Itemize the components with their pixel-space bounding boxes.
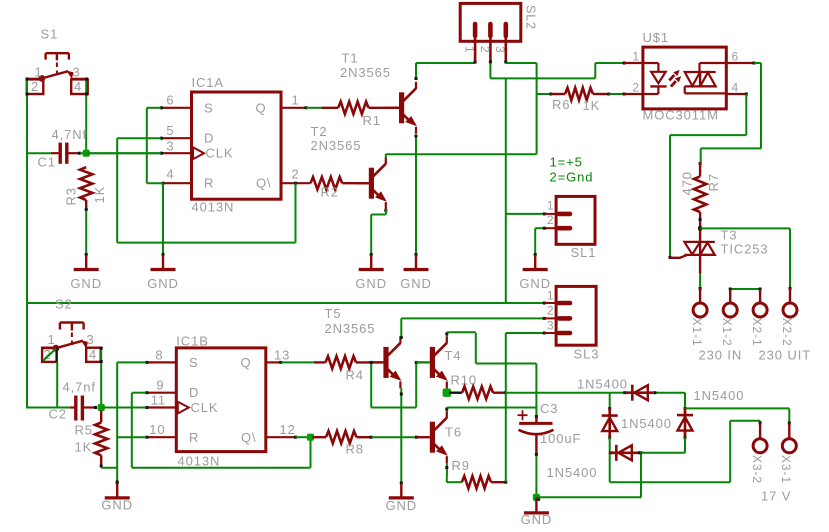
IC IC1B body [176, 348, 265, 452]
SL1 pin2 stub [544, 227, 556, 229]
svg-text:6: 6 [166, 93, 174, 108]
svg-text:C1: C1 [38, 155, 56, 170]
wire T1 emitter to GND [415, 135, 418, 259]
wire C3 bottom to GND dot [535, 455, 537, 497]
SL1 pin1 stub [544, 213, 556, 215]
wire pin12 to junction [296, 436, 311, 438]
wire IC1A pin5 stub [160, 137, 192, 140]
wire T6 emitter down [445, 463, 462, 482]
svg-text:Q: Q [255, 100, 266, 115]
svg-text:GND: GND [147, 276, 179, 291]
SL3 pin3 bar [559, 331, 570, 336]
svg-text:2N3565: 2N3565 [311, 138, 362, 153]
terminal X3-2 stub [759, 423, 761, 439]
ground GND (R3) [85, 253, 88, 256]
wire 17V wire to X3-1 [685, 408, 791, 424]
wire SL2 pin2 rail right [490, 77, 595, 79]
resistor R7 [699, 162, 702, 165]
ground GND (T5) [400, 481, 403, 484]
ground GND (SL1) [534, 253, 537, 256]
wire T5 collector to SL3 pin2 [400, 317, 546, 339]
svg-text:2: 2 [292, 167, 300, 182]
svg-text:1N5400: 1N5400 [577, 377, 628, 392]
triac T3 [670, 242, 715, 258]
wire S2 box2 diagonal entry [43, 349, 56, 361]
wire T5 base drop [370, 361, 373, 408]
wire S/R tie to GND vertical [116, 362, 119, 483]
wire S2 pin2 down to C2 [56, 362, 58, 409]
wire T4 base wire [416, 361, 430, 363]
IC1A CLK triangle [193, 147, 204, 159]
wire feedback D vertical [116, 138, 118, 242]
svg-text:11: 11 [151, 393, 166, 408]
resistor R3 [80, 167, 92, 200]
diode D2 (left, 1N5400) [608, 408, 611, 437]
svg-text:1: 1 [547, 289, 555, 303]
svg-text:S2: S2 [55, 297, 73, 312]
SL2 pin1 bar [473, 24, 478, 36]
svg-text:2: 2 [632, 81, 640, 95]
wire R8 to T6 base [372, 436, 419, 439]
svg-text:SL2: SL2 [524, 5, 538, 30]
svg-text:R6: R6 [552, 97, 570, 112]
wire IC1A pin4 stub [162, 182, 192, 185]
svg-text:T5: T5 [325, 306, 342, 321]
U$1 internal triac [685, 63, 727, 93]
svg-text:TIC253: TIC253 [721, 242, 769, 257]
SL3 pin3 stub [544, 332, 556, 334]
terminal X3-1 [782, 439, 796, 453]
svg-text:4013N: 4013N [178, 454, 221, 469]
connector SL2 body [460, 3, 521, 41]
wire X1-2/X2-1 bridge [729, 288, 762, 291]
SL2 pin3 lead [504, 33, 507, 62]
wire T1 collector up [415, 63, 418, 80]
svg-text:R4: R4 [346, 368, 364, 383]
wire net R to GND [162, 183, 164, 257]
svg-text:17 V: 17 V [761, 489, 791, 504]
svg-text:Q\: Q\ [241, 430, 257, 445]
svg-text:1: 1 [292, 93, 300, 108]
svg-text:3: 3 [547, 319, 555, 333]
terminal X2-2 [783, 303, 797, 317]
U$1 pin2 stub [624, 93, 643, 95]
svg-text:4: 4 [166, 167, 174, 182]
svg-text:SL1: SL1 [571, 245, 597, 260]
svg-text:R2: R2 [321, 185, 339, 200]
wire feedback D vertical B [131, 393, 133, 468]
svg-text:1K: 1K [92, 186, 107, 204]
transistor T4 [430, 347, 435, 378]
SL2 pin1 lead [474, 33, 477, 62]
wire GND branch right [536, 451, 642, 497]
svg-text:T4: T4 [445, 348, 462, 363]
SL3 pin2 stub [544, 317, 556, 319]
wire IC1A pin3 stub [160, 152, 192, 155]
wire net R wire [147, 182, 163, 184]
wire pin6 right and down [701, 63, 761, 163]
wire SL3 pin3 rail [506, 332, 546, 483]
svg-text:X2-2: X2-2 [780, 318, 794, 347]
wire SL2 pin3 rail down [505, 78, 507, 303]
svg-text:IC1A: IC1A [192, 75, 225, 90]
resistor R4 [314, 361, 326, 363]
wire rail up to U1 pin1 [595, 62, 625, 79]
wire pin13 to R4 [281, 361, 314, 363]
svg-text:GND: GND [521, 512, 553, 527]
svg-text:4,7Nf: 4,7Nf [52, 127, 88, 142]
svg-text:R8: R8 [346, 442, 364, 457]
svg-text:U$1: U$1 [643, 30, 670, 45]
wire feedback horizontal [117, 242, 295, 244]
wire IC1B pin12 stub [266, 436, 297, 439]
wire T6 base stub [417, 436, 430, 438]
SL1 pin1 bar [559, 212, 570, 217]
svg-text:1: 1 [632, 50, 640, 64]
SL2 pin2 bar [488, 24, 493, 36]
resistor R9 [462, 476, 491, 488]
wire R10 to bridge [506, 392, 610, 394]
terminal X3-1 stub [788, 423, 790, 439]
svg-text:C3: C3 [540, 401, 558, 416]
svg-text:X1-2: X1-2 [720, 318, 734, 347]
svg-text:4: 4 [74, 79, 82, 94]
terminal X1-1 stub [699, 288, 701, 303]
svg-text:2: 2 [547, 213, 555, 227]
wire S1 pin4 down to C1 junction [85, 78, 88, 154]
svg-text:5: 5 [166, 123, 174, 138]
resistor R2 [311, 177, 343, 189]
SL1 pin2 bar [559, 226, 570, 231]
svg-text:GND: GND [355, 276, 387, 291]
svg-text:10: 10 [149, 422, 165, 437]
svg-text:1K: 1K [75, 440, 93, 455]
wire T4 collector staircase [445, 332, 538, 418]
terminal X3-2 [753, 439, 767, 453]
svg-text:1N5400: 1N5400 [694, 388, 745, 403]
svg-text:S: S [204, 100, 214, 115]
resistor R5 [100, 411, 102, 423]
wire IC1B pin10 stub [145, 436, 176, 439]
svg-text:1: 1 [547, 199, 555, 213]
U$1 pin6 stub [726, 62, 754, 64]
wire feedback horizontal B [132, 467, 311, 469]
svg-text:X2-1: X2-1 [750, 318, 764, 347]
SL3 pin2 bar [559, 316, 570, 321]
resistor R6 [551, 93, 565, 95]
terminal X1-2 [723, 303, 737, 317]
svg-text:2: 2 [478, 46, 492, 54]
wire bridge top wire [610, 391, 685, 394]
svg-text:GND: GND [70, 276, 102, 291]
wire T3 MT1 down [699, 255, 702, 290]
capacitor C3 [519, 417, 554, 456]
svg-text:470: 470 [680, 171, 695, 195]
wire SL2 pin2 down [489, 63, 491, 78]
svg-text:D: D [189, 385, 199, 400]
IC1B CLK triangle [178, 402, 189, 414]
svg-text:1: 1 [463, 46, 477, 54]
wire SL1 pin2 to GND [535, 227, 546, 258]
svg-text:9: 9 [156, 378, 164, 393]
wire net CLK wire B [101, 407, 146, 409]
svg-text:4: 4 [89, 347, 97, 362]
capacitor C3 plus sign [518, 414, 528, 416]
optocoupler U$1 body [643, 47, 726, 109]
wire feedback Qbar vertical B [310, 437, 312, 468]
wire C1 right to CLK net [80, 152, 161, 154]
svg-text:1N5400: 1N5400 [621, 416, 672, 431]
wire IC1B pin13 stub [266, 361, 283, 364]
terminal X1-1 [693, 303, 707, 317]
svg-text:4013N: 4013N [192, 200, 235, 215]
wire bridge left vertical [608, 393, 611, 483]
wire T2 emitter jog [371, 209, 387, 258]
svg-text:R7: R7 [706, 173, 721, 191]
switch S1 [27, 53, 88, 94]
junction T3 MT2 tap [698, 226, 702, 230]
svg-text:230 UIT: 230 UIT [759, 348, 812, 363]
transistor T6 [430, 422, 435, 453]
U$1 internal LED [643, 63, 667, 94]
junction Q-bar/R8/feedback [307, 434, 314, 441]
wire T4 base drop [415, 361, 418, 408]
wire T1 collector to SL2 pin1 [416, 61, 477, 64]
svg-text:R: R [204, 176, 214, 191]
resistor R10 [449, 392, 462, 394]
wire net D wire [117, 137, 161, 139]
wire IC1B pin9 stub [145, 391, 176, 394]
svg-text:2=Gnd: 2=Gnd [550, 170, 594, 185]
wire net CLK wire from C1 [86, 152, 161, 154]
ground GND (T2) [370, 253, 373, 256]
wire net S wire [147, 107, 161, 109]
svg-text:R9: R9 [452, 458, 470, 473]
wire X3-2 wire [610, 421, 762, 483]
svg-text:GND: GND [400, 276, 432, 291]
wire T2 collector rail [386, 153, 537, 155]
wire R5 bottom to GND branch [101, 467, 117, 469]
terminal X1-2 stub [729, 289, 731, 303]
svg-text:IC1B: IC1B [176, 334, 209, 349]
svg-text:2: 2 [31, 79, 39, 94]
svg-text:X3-2: X3-2 [750, 455, 764, 484]
wire net S wire B [117, 361, 146, 363]
svg-text:GND: GND [101, 498, 133, 513]
terminal X2-1 [753, 303, 767, 317]
svg-text:X3-1: X3-1 [779, 455, 793, 484]
wire IC1A pin6 stub [160, 106, 192, 109]
wire T6 collector up [445, 408, 448, 412]
svg-text:T3: T3 [721, 228, 738, 243]
wire T2 collector up [385, 154, 387, 157]
resistor R1 [321, 107, 338, 109]
diode D3 (right, 1N5400) [684, 408, 687, 437]
svg-text:Q\: Q\ [256, 176, 272, 191]
ground GND (C3) [535, 497, 537, 513]
U$1 lightning arrows [669, 75, 674, 81]
connector SL3 body [556, 286, 596, 345]
svg-text:1: 1 [35, 65, 43, 80]
wire Q1 net to R1 [306, 107, 321, 109]
U$1 pin1 stub [624, 62, 643, 64]
svg-text:3: 3 [166, 139, 174, 154]
svg-text:X1-1: X1-1 [690, 318, 704, 347]
switch S2 [42, 323, 101, 363]
svg-text:3: 3 [493, 46, 507, 54]
svg-text:2N3565: 2N3565 [325, 321, 376, 336]
SL2 pin3 bar [503, 24, 508, 36]
wire T6 collector rail [447, 407, 537, 409]
svg-text:S1: S1 [41, 27, 59, 42]
U$1 pin4 stub [726, 93, 746, 95]
svg-text:S: S [189, 355, 199, 370]
wire bus corner to C2 [27, 303, 70, 409]
svg-text:MOC3011M: MOC3011M [643, 108, 719, 123]
wire SL1 pin1 branch [506, 212, 546, 215]
wire bridge bottom wire [610, 451, 685, 454]
svg-text:13: 13 [274, 348, 290, 363]
wire C1 left lead to bus [27, 152, 51, 154]
svg-text:CLK: CLK [191, 400, 219, 415]
svg-text:4: 4 [732, 81, 740, 95]
wire R3 bottom to GND [85, 211, 87, 258]
resistor R8 [313, 436, 327, 438]
svg-text:100uF: 100uF [540, 431, 581, 446]
SL2 pin2 lead [489, 33, 492, 62]
wire IC1B pin8 stub [145, 361, 176, 364]
diode D1 (top, 1N5400) [625, 391, 654, 394]
wire T5 emitter to GND [400, 388, 403, 483]
ground GND (IC1A R) [162, 253, 165, 256]
transistor T2 [369, 168, 374, 199]
capacitor C2 [70, 396, 97, 421]
terminal X2-1 stub [759, 289, 761, 303]
diode D4 (bottom, 1N5400) [609, 451, 638, 454]
wire R6 to U1 pin2 [609, 93, 626, 96]
svg-text:Q: Q [240, 355, 251, 370]
wire IC1B pin11 stub [145, 406, 176, 409]
wire S2 pin4 down to C2 junction [100, 347, 103, 408]
svg-text:1: 1 [48, 332, 56, 347]
wire net D wire B [132, 392, 147, 394]
connector SL1 body [556, 196, 595, 244]
ground GND (T1) [415, 253, 418, 256]
wire net S-R tie vertical [146, 108, 148, 183]
svg-text:4,7nf: 4,7nf [63, 380, 96, 395]
IC IC1A body [192, 92, 282, 199]
svg-text:R3: R3 [64, 187, 79, 205]
svg-text:T6: T6 [445, 425, 462, 440]
wire bridge right vertical [684, 393, 687, 453]
svg-text:8: 8 [155, 348, 163, 363]
svg-text:2: 2 [547, 304, 555, 318]
svg-text:CLK: CLK [206, 146, 234, 161]
svg-text:12: 12 [280, 422, 296, 437]
svg-text:R1: R1 [363, 113, 381, 128]
transistor T1 [399, 92, 404, 123]
wire SL2 pin3 right [506, 63, 537, 154]
svg-text:D: D [204, 131, 214, 146]
svg-text:3: 3 [87, 332, 95, 347]
wire IC1A pin1 stub [281, 106, 308, 109]
junction C2/R5/CLK [98, 404, 105, 411]
wire base U link [371, 407, 416, 409]
svg-text:GND: GND [386, 498, 418, 513]
svg-text:SL3: SL3 [574, 347, 600, 362]
svg-text:2N3565: 2N3565 [340, 65, 391, 80]
wire T3 to X2-2 [700, 228, 791, 290]
transistor T5 [383, 347, 388, 378]
svg-text:1=+5: 1=+5 [550, 155, 583, 170]
wire pin4 down-left-down [669, 94, 747, 259]
svg-text:230 IN: 230 IN [699, 348, 743, 363]
SL3 pin1 stub [544, 302, 556, 304]
svg-text:C2: C2 [49, 407, 67, 422]
wire main bus horizontal [27, 302, 546, 305]
terminal X2-2 stub [789, 288, 791, 303]
junction C1/R3/CLK [83, 150, 90, 157]
wire net R wire B [117, 436, 146, 438]
wire S1 pin2 to C1 left / bus down [26, 78, 29, 409]
svg-text:3: 3 [73, 65, 81, 80]
junction T4 emitter/R10 [443, 389, 451, 397]
wire feedback Qbar vertical [295, 183, 297, 242]
junction C3/GND/bridge [533, 494, 540, 501]
svg-text:T2: T2 [311, 124, 328, 139]
svg-text:6: 6 [732, 50, 740, 64]
svg-text:R5: R5 [75, 423, 93, 438]
wire IC1A pin2 stub [281, 182, 311, 185]
svg-text:T1: T1 [342, 51, 359, 66]
capacitor C1 [51, 143, 81, 164]
SL3 pin1 bar [559, 301, 570, 306]
wire R6 tap [537, 93, 553, 96]
svg-text:1N5400: 1N5400 [547, 465, 598, 480]
svg-text:1K: 1K [583, 98, 601, 113]
svg-text:R: R [189, 430, 199, 445]
ground GND (IC1B) [116, 481, 119, 484]
